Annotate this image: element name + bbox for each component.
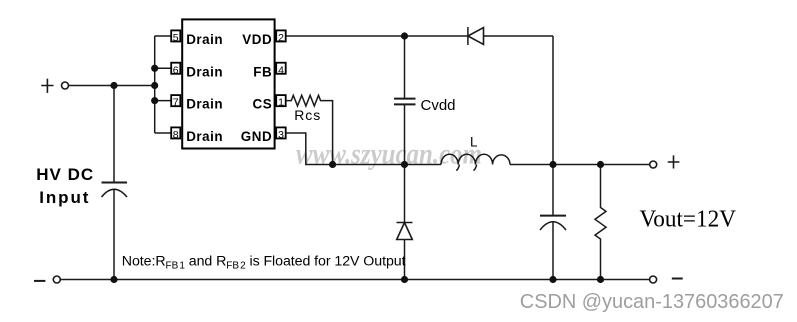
svg-text:Drain: Drain	[186, 129, 223, 144]
svg-text:7: 7	[173, 97, 179, 109]
svg-text:Vout=12V: Vout=12V	[640, 206, 737, 232]
svg-text:Drain: Drain	[186, 64, 223, 79]
svg-text:HV DC: HV DC	[36, 165, 94, 184]
svg-text:Rcs: Rcs	[294, 107, 321, 123]
svg-text:Note:RFB1 and RFB2 is Floated: Note:RFB1 and RFB2 is Floated for 12V Ou…	[122, 254, 406, 272]
svg-text:Drain: Drain	[186, 97, 223, 112]
svg-text:CS: CS	[252, 97, 272, 112]
svg-text:GND: GND	[241, 129, 272, 144]
svg-text:3: 3	[278, 129, 284, 141]
svg-text:Input: Input	[39, 188, 90, 207]
svg-text:2: 2	[278, 32, 284, 44]
svg-text:VDD: VDD	[242, 32, 272, 47]
svg-text:6: 6	[173, 64, 179, 76]
svg-text:1: 1	[278, 97, 284, 109]
svg-text:FB: FB	[253, 64, 272, 79]
svg-text:www.szyucan.com: www.szyucan.com	[296, 138, 482, 171]
svg-text:CSDN @yucan-13760366207: CSDN @yucan-13760366207	[520, 291, 784, 313]
svg-text:4: 4	[278, 64, 284, 76]
svg-text:Cvdd: Cvdd	[421, 97, 456, 114]
svg-text:5: 5	[173, 32, 179, 44]
svg-text:8: 8	[173, 129, 179, 141]
svg-text:Drain: Drain	[186, 32, 223, 47]
svg-text:L: L	[470, 134, 478, 149]
